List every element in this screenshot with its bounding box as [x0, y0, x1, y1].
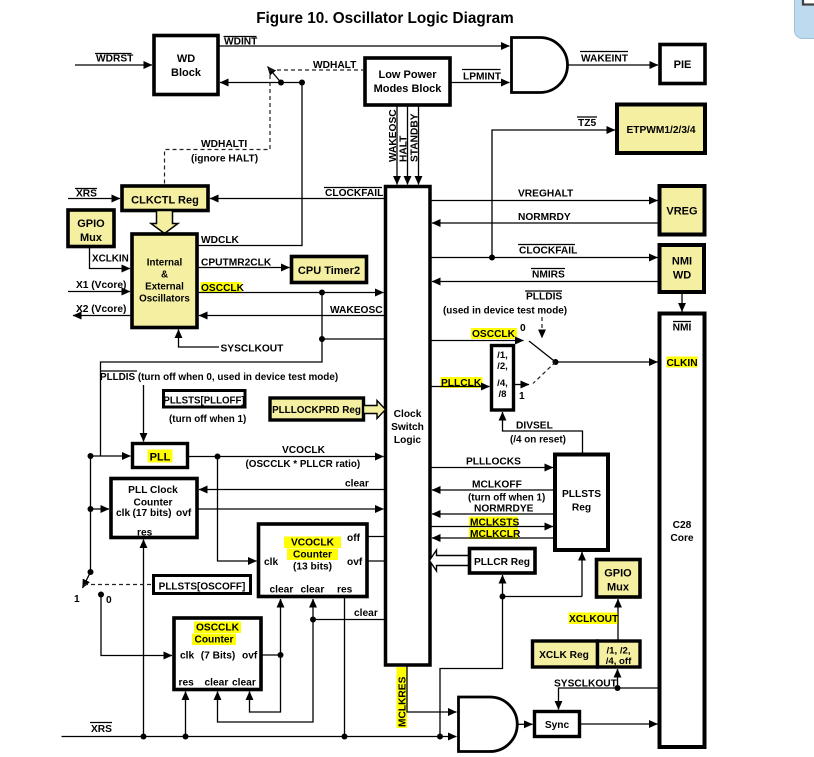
VCOCLK counter clk feed wire: [218, 457, 257, 562]
svg-text:WDINT: WDINT: [224, 37, 258, 48]
WDCLK wire oscillators to WD Block: [197, 84, 302, 246]
WDRST input wire: [75, 54, 152, 66]
svg-text:Counter: Counter: [293, 550, 332, 561]
Internal & External Oscillators block: [132, 234, 197, 328]
TZ5 wire to ETPWM: [492, 117, 615, 258]
junction dot XRS rail res3: [342, 734, 348, 740]
PLLSTS Reg block: [555, 455, 608, 551]
NMI wire NMI WD to C28 Core: [681, 292, 683, 312]
res wire PLL Clock Counter from XRS rail: [143, 540, 145, 737]
block arrow PLLCR Reg to Clock Switch Logic: [430, 550, 470, 571]
svg-text:LPMINT: LPMINT: [463, 72, 502, 83]
CLKCTL Reg block: [122, 186, 208, 211]
PLLCLK wire to divider: [430, 377, 490, 389]
switch SW2 position 0 node: [98, 592, 112, 607]
svg-text:TZ5: TZ5: [578, 118, 596, 129]
svg-text:GPIO: GPIO: [77, 218, 105, 230]
svg-text:/1, /2,: /1, /2,: [607, 646, 631, 657]
svg-text:WDHALTI: WDHALTI: [201, 139, 247, 150]
svg-text:PLLSTS[PLLOFF]: PLLSTS[PLLOFF]: [163, 396, 244, 407]
svg-text:Logic: Logic: [394, 435, 421, 446]
svg-text:CLKCTL Reg: CLKCTL Reg: [131, 195, 199, 207]
res wire VCOCLK Counter to XRS rail: [344, 597, 346, 737]
ovf wire VCOCLK Counter to Clock Switch Logic: [367, 560, 386, 562]
block arrow PLLLOCKPRD Reg to Clock Switch Logic: [364, 401, 386, 419]
clear wire to OSCCLK Counter clear pin: [218, 620, 314, 723]
wire junction to PLLSTS feed: [503, 596, 583, 598]
svg-text:XRS: XRS: [91, 724, 112, 735]
svg-text:/1,: /1,: [497, 350, 508, 361]
VREGHALT wire to VREG: [430, 189, 658, 201]
block arrow CLKCTL Reg to oscillators: [151, 211, 178, 234]
PLLDIS dashed control arrow to switch SW3: [541, 317, 543, 338]
MCLKCLR wire from PLLSTS Reg: [432, 528, 555, 540]
junction dot CLOCKFAIL/TZ5: [489, 255, 495, 261]
svg-text:Figure 10. Oscillator Logic Di: Figure 10. Oscillator Logic Diagram: [256, 10, 514, 27]
svg-text:Oscillators: Oscillators: [139, 294, 190, 305]
svg-text:Core: Core: [670, 533, 694, 544]
svg-text:MCLKOFF: MCLKOFF: [472, 480, 522, 491]
divider /1 /2 /4 /8 block: [492, 346, 514, 411]
junction dot PLL input: [88, 453, 94, 459]
wire PLLSTS Reg bottom feed: [581, 552, 583, 597]
svg-text:Low Power: Low Power: [378, 69, 437, 81]
svg-text:/2,: /2,: [497, 361, 508, 372]
clear wire to PLL Clock Counter: [199, 479, 386, 490]
svg-text:(7 Bits): (7 Bits): [201, 651, 236, 662]
DIVSEL wire PLLSTS Reg to divider: [503, 412, 583, 455]
CLOCKFAIL wire to NMI WD: [430, 245, 658, 258]
svg-text:res: res: [179, 678, 195, 689]
svg-text:&: &: [161, 270, 168, 281]
WDHALT dashed control wire: [270, 60, 363, 71]
wire SYSCLKOUT to XCLK divider: [617, 669, 619, 688]
svg-text:/4, off: /4, off: [606, 656, 632, 667]
MCLKSTS wire to PLLSTS Reg: [430, 517, 553, 529]
WAKEOSC wire to oscillators: [199, 305, 386, 316]
switch SW3 pivot node: [553, 359, 559, 365]
XCLKOUT wire divider to GPIO Mux: [569, 599, 620, 641]
svg-text:NMI: NMI: [672, 256, 692, 268]
svg-text:PLLCR Reg: PLLCR Reg: [474, 557, 530, 568]
clk wire to OSCCLK Counter: [101, 595, 172, 656]
PLL input wire: [91, 455, 131, 457]
OSCCLK tap wire down to PLL feed: [101, 293, 323, 457]
junction dot XRS rail res1: [141, 734, 147, 740]
svg-text:(/4 on reset): (/4 on reset): [510, 435, 566, 446]
svg-text:(13 bits): (13 bits): [293, 562, 332, 573]
ovf wire OSCCLK Counter: [261, 654, 281, 656]
svg-text:(ignore HALT): (ignore HALT): [191, 154, 258, 165]
HALT wire Low Power block to Clock Switch: [399, 105, 410, 185]
wire junction down to XRS rail: [440, 597, 503, 737]
NMIRS wire from NMI WD: [432, 269, 660, 282]
svg-text:X1 (Vcore): X1 (Vcore): [76, 280, 126, 291]
clear wire to VCOCLK Counter clear pin: [312, 599, 314, 620]
VCOCLK wire PLL to Clock Switch Logic: [188, 445, 384, 470]
svg-text:VCOCLK: VCOCLK: [282, 445, 326, 456]
svg-text:WDRST: WDRST: [96, 54, 134, 65]
svg-text:Counter: Counter: [194, 635, 233, 646]
svg-text:OSCCLK: OSCCLK: [472, 329, 516, 340]
res wire OSCCLK Counter from XRS rail: [185, 692, 187, 737]
svg-text:PLLSTS: PLLSTS: [562, 489, 601, 500]
STANDBY wire Low Power block to Clock Switch: [410, 105, 421, 185]
junction dot clear: [310, 617, 316, 623]
svg-text:SYSCLKOUT: SYSCLKOUT: [221, 344, 285, 355]
svg-text:CLOCKFAIL: CLOCKFAIL: [519, 246, 577, 257]
svg-text:PLLDIS (turn off when 0, used: PLLDIS (turn off when 0, used in device …: [100, 372, 338, 383]
junction dot XRS rail res2: [183, 734, 189, 740]
svg-text:CPUTMR2CLK: CPUTMR2CLK: [201, 258, 272, 269]
junction dot on WDCLK wire: [278, 80, 284, 86]
svg-text:(turn off when 1): (turn off when 1): [169, 414, 246, 425]
CPU Timer2 block: [292, 257, 367, 283]
svg-text:ovf: ovf: [347, 557, 363, 568]
svg-text:External: External: [145, 282, 184, 293]
MCLKOFF wire from PLLSTS Reg: [432, 480, 555, 504]
XRS input wire to CLKCTL Reg: [68, 189, 120, 200]
junction dot PLLCR feed: [500, 594, 506, 600]
VREG block: [660, 186, 705, 235]
switch SW3 blade: [529, 341, 556, 362]
svg-text:CLOCKFAIL: CLOCKFAIL: [325, 188, 383, 199]
NORMRDY wire from VREG: [432, 212, 660, 223]
Sync block: [535, 712, 580, 737]
svg-text:Reg: Reg: [572, 503, 591, 514]
svg-text:clk: clk: [116, 508, 130, 519]
svg-text:ovf: ovf: [242, 651, 258, 662]
AND gate U2: [512, 38, 568, 93]
PLLCR Reg block: [470, 549, 536, 574]
junction dot VCOCLK tap: [215, 454, 221, 460]
PLLSTS[PLLOFF] register label box: [163, 391, 246, 426]
junction dot OSCCLK: [319, 290, 325, 296]
svg-text:WAKEOSC: WAKEOSC: [388, 109, 399, 162]
X2 (Vcore) output wire: [73, 304, 132, 316]
junction dot clk rail: [88, 506, 94, 512]
svg-text:Switch: Switch: [391, 422, 424, 433]
VCOCLK Counter block: [259, 524, 368, 597]
divider output wire to switch position 1: [514, 385, 530, 403]
svg-text:OSCCLK: OSCCLK: [196, 623, 240, 634]
NORMRDYE wire from PLLSTS Reg: [432, 504, 555, 515]
svg-text:(OSCCLK * PLLCR ratio): (OSCCLK * PLLCR ratio): [246, 459, 361, 470]
junction dot SYSCLKOUT: [615, 685, 621, 691]
svg-text:clear: clear: [301, 585, 325, 596]
junction dot OSCCLK tap: [319, 336, 325, 342]
LPMINT wire to AND gate: [450, 70, 510, 83]
svg-text:PLLLOCKPRD Reg: PLLLOCKPRD Reg: [272, 405, 361, 416]
svg-text:Mux: Mux: [607, 582, 630, 594]
WDINT wire WD Block to AND gate U2: [218, 37, 510, 48]
browser UI overlay panel top-right: [795, 0, 814, 39]
WD Block U1: [154, 36, 218, 95]
svg-text:WAKEOSC: WAKEOSC: [330, 305, 383, 316]
svg-text:res: res: [137, 528, 153, 539]
PLL Clock Counter block: [111, 479, 197, 539]
svg-text:Mux: Mux: [80, 232, 103, 244]
svg-text:PLL Clock: PLL Clock: [128, 485, 178, 496]
svg-text:GPIO: GPIO: [604, 568, 632, 580]
svg-text:SYSCLKOUT: SYSCLKOUT: [554, 679, 618, 690]
svg-text:PLLSTS[OSCOFF]: PLLSTS[OSCOFF]: [159, 582, 246, 593]
svg-text:PLLCLK: PLLCLK: [441, 378, 482, 389]
PLLLOCKPRD Reg block: [270, 398, 364, 420]
svg-text:/4,: /4,: [497, 378, 508, 389]
WDHALTI dashed control path: [165, 68, 271, 185]
svg-text:WDCLK: WDCLK: [201, 235, 240, 246]
junction dot ovf: [278, 652, 284, 658]
XCLKIN wire GPIO Mux to oscillators: [90, 247, 131, 269]
svg-text:STANDBY: STANDBY: [410, 113, 421, 162]
PLLSTS[OSCOFF] dashed control wire: [84, 584, 154, 586]
svg-text:(used in device test mode): (used in device test mode): [443, 306, 567, 317]
CPUTMR2CLK wire to CPU Timer2: [197, 258, 290, 269]
svg-text:XCLK Reg: XCLK Reg: [539, 650, 589, 661]
X1 (Vcore) input wire: [68, 280, 130, 292]
PLL block: [133, 444, 188, 468]
svg-text:(turn off when 1): (turn off when 1): [468, 493, 545, 504]
svg-text:CLKIN: CLKIN: [666, 358, 697, 369]
XCLK Reg block: [533, 641, 598, 667]
svg-text:VREGHALT: VREGHALT: [518, 189, 574, 200]
wire tap into Clock Switch Logic: [322, 338, 386, 340]
svg-text:PLL: PLL: [150, 452, 171, 464]
PLLLOCKS wire to PLLSTS Reg: [430, 457, 553, 468]
CLKIN wire to C28 Core: [556, 361, 658, 363]
AND gate U4: [459, 697, 518, 752]
svg-text:res: res: [337, 585, 353, 596]
svg-text:HALT: HALT: [399, 135, 410, 162]
svg-text:X2 (Vcore): X2 (Vcore): [76, 304, 126, 315]
clear wire from Clock Switch Logic: [313, 608, 386, 620]
svg-text:clear: clear: [270, 585, 294, 596]
svg-text:DIVSEL: DIVSEL: [516, 421, 553, 432]
PLLDIS control wire to PLL: [143, 385, 145, 442]
svg-text:clear: clear: [354, 608, 378, 619]
svg-text:1: 1: [74, 594, 80, 605]
switch blade SW1: [268, 67, 282, 83]
wire PLLCR Reg bottom feed: [502, 575, 504, 597]
svg-text:XRS: XRS: [76, 189, 97, 200]
svg-text:Clock: Clock: [394, 409, 422, 420]
SYSCLKOUT stub into oscillators: [179, 330, 285, 355]
svg-text:VREG: VREG: [666, 206, 697, 218]
ovf wire PLL Clock Counter to Clock Switch Logic: [197, 508, 384, 510]
svg-text:WAKEINT: WAKEINT: [581, 54, 629, 65]
svg-text:CPU Timer2: CPU Timer2: [298, 265, 360, 277]
svg-text:VCOCLK: VCOCLK: [291, 538, 335, 549]
svg-text:NORMRDY: NORMRDY: [518, 212, 571, 223]
PLLDIS label (device test mode): [443, 291, 567, 317]
OSCCLK wire to switch position 0: [430, 323, 526, 341]
switch SW2 pivot node: [88, 569, 94, 575]
svg-text:XCLKOUT: XCLKOUT: [569, 614, 619, 625]
svg-text:clear: clear: [232, 678, 256, 689]
NMI WD block: [660, 245, 705, 292]
PLLDIS note label: [100, 371, 338, 383]
ovf feedback to OSCCLK Counter clear pin: [250, 655, 281, 712]
PLLSTS[OSCOFF] register label box: [154, 576, 251, 594]
PIE block: [660, 45, 705, 84]
WAKEINT wire to PIE: [568, 52, 659, 66]
svg-text:ovf: ovf: [176, 508, 192, 519]
CLOCKFAIL wire to CLKCTL Reg: [210, 188, 386, 200]
svg-text:NMI: NMI: [673, 323, 692, 334]
svg-text:WD: WD: [177, 53, 195, 65]
svg-text:XCLKIN: XCLKIN: [92, 254, 129, 265]
off wire VCOCLK Counter to Clock Switch Logic: [367, 536, 386, 538]
junction dot XRS rail reg feed: [437, 734, 443, 740]
svg-text:PIE: PIE: [674, 59, 692, 71]
svg-text:C28: C28: [673, 520, 692, 531]
svg-text:(17 bits): (17 bits): [132, 508, 171, 519]
GPIO Mux block (left): [68, 210, 114, 247]
svg-text:off: off: [347, 533, 361, 544]
OSCCLK output wire to Clock Switch Logic: [197, 282, 384, 294]
left rail wire: [90, 456, 92, 572]
MCLKRES wire Clock Switch Logic to AND gate U4: [397, 665, 457, 728]
svg-text:PLLDIS: PLLDIS: [526, 292, 562, 303]
ETPWM1/2/3/4 block: [617, 105, 705, 154]
svg-text:NMIRS: NMIRS: [532, 270, 565, 281]
svg-text:Block: Block: [171, 67, 202, 79]
svg-text:PLLLOCKS: PLLLOCKS: [466, 457, 521, 468]
svg-text:0: 0: [106, 595, 112, 606]
SYSCLKOUT wire from C28 Core: [554, 679, 660, 710]
Clock Switch Logic block: [386, 187, 431, 666]
svg-text:clear: clear: [205, 678, 229, 689]
wire AND gate U4 to Sync: [517, 723, 532, 725]
Low Power Modes Block U3: [365, 58, 450, 105]
svg-text:1: 1: [519, 391, 525, 402]
C28 Core block: [660, 314, 705, 748]
WAKEOSC wire Low Power block to Clock Switch: [388, 105, 399, 185]
svg-text:ETPWM1/2/3/4: ETPWM1/2/3/4: [626, 125, 695, 136]
wire Sync to C28 Core: [580, 723, 658, 725]
XRS rail wire: [62, 723, 457, 737]
svg-text:Counter: Counter: [133, 498, 172, 509]
XCLK divider /1 /2 /4 off block: [598, 641, 641, 667]
svg-text:/8: /8: [498, 389, 507, 400]
switch SW2 blade to position 1: [74, 572, 91, 605]
svg-text:Sync: Sync: [545, 720, 570, 731]
wire into WD Block right side: [220, 82, 302, 84]
svg-text:Modes Block: Modes Block: [374, 83, 443, 95]
GPIO Mux block (right): [597, 560, 641, 598]
ovf feedback to VCOCLK Counter clear pin: [280, 599, 282, 655]
svg-text:clk: clk: [180, 651, 194, 662]
svg-text:clk: clk: [264, 557, 278, 568]
svg-text:NORMRDYE: NORMRDYE: [474, 504, 534, 515]
switch SW3 dashed blade to position 1: [533, 362, 556, 384]
svg-text:0: 0: [520, 323, 526, 334]
OSCCLK Counter block: [174, 618, 261, 690]
clk wire into PLL Clock Counter: [91, 508, 110, 510]
svg-text:WD: WD: [673, 270, 691, 282]
svg-text:clear: clear: [345, 479, 369, 490]
svg-text:Internal: Internal: [147, 258, 183, 269]
svg-text:WDHALT: WDHALT: [313, 60, 357, 71]
junction dot WDCLK vertical: [299, 80, 305, 86]
